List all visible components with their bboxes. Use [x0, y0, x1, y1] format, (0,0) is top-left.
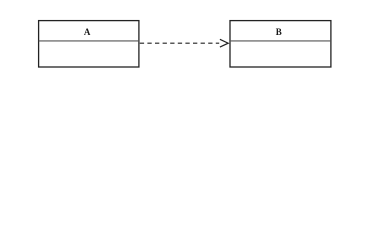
open arrowhead at B: [220, 39, 228, 47]
dashed dependency wire A to B: [140, 42, 219, 44]
class box A: [39, 21, 139, 67]
svg-text:A: A: [84, 27, 91, 37]
class box B: [230, 21, 331, 67]
divider A: [39, 40, 139, 42]
svg-text:B: B: [276, 27, 282, 37]
divider B: [230, 40, 331, 42]
